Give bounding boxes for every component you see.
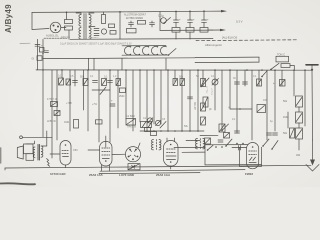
capacitor C10 [73, 80, 78, 82]
wire left feeder a [37, 39, 39, 70]
wire vertical v110 [109, 70, 111, 142]
wire vertical v147 [146, 70, 148, 131]
resistor R6 [40, 48, 45, 53]
speaker magnet [24, 144, 34, 154]
resistor R27 [224, 133, 230, 139]
wire mains drop left [32, 12, 49, 29]
wire vertical v245 [244, 70, 246, 86]
wire vertical v118 [117, 70, 119, 128]
capacitor C1 [94, 28, 99, 30]
capacitor C14 [235, 81, 240, 83]
svg-text:A/By49: A/By49 [4, 4, 13, 33]
wire long box bottom [195, 61, 259, 64]
wire vertical v252 [251, 70, 253, 140]
switch S6 [160, 122, 166, 129]
wire vertical v154 [153, 70, 155, 124]
switch S4 [222, 124, 229, 131]
tube V3 [164, 141, 179, 167]
wire secondary top [89, 13, 94, 15]
ladder hatches [296, 98, 302, 138]
resistor R25 [151, 132, 157, 136]
wire psu bottom line [70, 38, 213, 41]
capacitor C16 [110, 103, 115, 105]
wire vertical v175 [174, 70, 176, 82]
resistor R13 [102, 79, 107, 86]
svg-text:+768: +768 [66, 102, 72, 105]
heater V2 [134, 46, 140, 54]
pot arrow 2 [100, 87, 106, 95]
wire plate lead [174, 146, 205, 148]
junction dot [119, 11, 121, 13]
resistor R1 [102, 15, 106, 24]
wire secondary taps [89, 26, 95, 28]
svg-text:Allstromgerät: Allstromgerät [205, 43, 222, 47]
resistor R3 [110, 31, 116, 35]
capacitor C9b [45, 50, 49, 52]
wire r8 link [290, 66, 294, 70]
output cage left [204, 145, 206, 165]
wire ot right [42, 131, 47, 146]
electrolytic C7 [203, 11, 205, 20]
wire vertical v140 [139, 70, 141, 122]
tube V2 [100, 141, 112, 166]
capacitor C20 [218, 139, 223, 141]
resistor R19 [257, 79, 262, 86]
wire v288 [287, 112, 289, 128]
resistor R32 [219, 124, 225, 132]
if transformer L2 [196, 139, 198, 149]
heater junction dots [130, 46, 131, 47]
svg-text:C50: C50 [73, 149, 78, 152]
svg-text:1F730 G1R: 1F730 G1R [50, 172, 66, 176]
tube V1 [60, 141, 71, 166]
resistor R33 [205, 138, 211, 144]
wire vertical v230 [229, 70, 231, 109]
resistor R7 [37, 56, 42, 61]
resistor R20 [280, 80, 286, 87]
resistor R21 [51, 102, 58, 107]
switch S3 [271, 63, 279, 69]
tube V4 [247, 143, 259, 169]
capacitor C13 [188, 96, 193, 98]
scan artifact left edge [0, 148, 2, 163]
dashed chassis line [196, 39, 297, 42]
resistor ladder right r3 [296, 128, 303, 139]
svg-text:220V 2A: 220V 2A [61, 36, 70, 39]
capacitor C11 [93, 80, 98, 82]
tube V3 pins [166, 138, 168, 142]
wire R1 [103, 12, 105, 15]
wire low line3 [99, 173, 200, 174]
power transformer T1 secondary [89, 15, 91, 27]
resistor R4 [138, 21, 146, 25]
svg-text:ZF 468: ZF 468 [206, 86, 208, 94]
wire vertical v190 [189, 70, 191, 131]
svg-text:ENTBRUMMER: ENTBRUMMER [126, 17, 143, 20]
ground chevron [306, 165, 319, 172]
wire vertical v75 [74, 70, 76, 86]
wire vertical v99 [98, 70, 100, 142]
trimmer T2 [155, 120, 160, 125]
switch S8 [263, 139, 269, 146]
output cage bottom [205, 164, 262, 166]
tube V1 pins [65, 165, 67, 168]
resistor hum zigzag [47, 159, 50, 167]
tone box [276, 56, 289, 62]
wire left feeder b [42, 39, 44, 70]
wire vertical v62 [61, 70, 63, 78]
wire long box top [195, 56, 259, 59]
pot arrow [201, 78, 209, 87]
svg-text:AW: AW [296, 153, 301, 157]
wire vertical v294 [293, 70, 295, 96]
heater V4 [152, 46, 158, 54]
wire mid rail [43, 57, 195, 60]
wire output arrow [208, 29, 221, 31]
capacitor C12 [108, 80, 113, 82]
wire main bus [36, 69, 312, 71]
resistor R2 [109, 24, 115, 28]
rectifier cell G3 [200, 28, 208, 33]
capacitor C21 [267, 132, 272, 134]
wire ladder [298, 107, 300, 112]
wire vertical v305 [304, 70, 306, 126]
switch S2 [169, 49, 177, 56]
switch S7 [226, 139, 232, 146]
wire vertical v198 [197, 70, 199, 131]
wire plug to fuse [61, 27, 66, 29]
resistor R8 [281, 64, 290, 68]
resistor ladder right r2 [296, 112, 303, 123]
resistor R15 [120, 88, 126, 93]
rectifier cell G1 [172, 28, 180, 33]
wire vertical v267 [266, 70, 268, 140]
output cage top [205, 144, 248, 146]
wire vertical v43 [42, 70, 44, 137]
resistor R24 [145, 128, 151, 132]
resistor R22 [54, 111, 60, 116]
resistor R23 [126, 119, 136, 126]
capacitor C2 [94, 33, 99, 35]
capacitor C22 [238, 146, 240, 151]
scan artifact bottom-left [0, 183, 35, 184]
switch S5 [272, 141, 278, 150]
wire vertical v222 [221, 70, 223, 131]
wire rectifier column [159, 12, 161, 31]
wire cathode line [100, 170, 245, 172]
electrolytic C5 [175, 12, 177, 21]
output transformer core [37, 145, 39, 161]
heater V5 [161, 46, 167, 54]
output transformer winding [41, 146, 43, 157]
ground arrow [312, 140, 314, 162]
resistor R14 [116, 79, 121, 86]
svg-text:C.2g: C.2g [158, 14, 164, 18]
junction row above V3 [146, 130, 199, 132]
box hatch group [51, 79, 294, 170]
svg-text:50 kHz: 50 kHz [211, 88, 213, 96]
heater chain bottom rail [122, 54, 168, 56]
hatch box [141, 122, 152, 128]
svg-text:17767 1L: 17767 1L [47, 98, 58, 101]
junction dots row [236, 143, 238, 145]
capacitor C18 [273, 132, 278, 134]
resistor R5 [127, 29, 137, 33]
trimmer T1 [147, 118, 152, 123]
wire vertical v88 [87, 70, 89, 131]
resistor R17 [180, 79, 185, 86]
heater V3 [143, 46, 149, 54]
wire tube top leads [186, 139, 200, 141]
capacitor C17 [235, 130, 240, 132]
wire speaker top [26, 141, 35, 144]
wire vertical v70 [69, 70, 71, 131]
socket X1 [125, 147, 140, 162]
svg-text:TON.C: TON.C [277, 53, 285, 57]
wire vertical v126 [125, 70, 127, 119]
wire bottom hook [4, 168, 6, 170]
wire bottom long [5, 165, 311, 168]
resistor R30 [201, 103, 206, 111]
svg-text:LF50 W: LF50 W [47, 120, 56, 123]
wire vertical v203 [202, 70, 204, 86]
wire fuse down [68, 30, 70, 39]
rectifier cell G2 [186, 28, 194, 33]
wire y90 [92, 89, 110, 91]
switch S1 [164, 18, 171, 24]
capacitor C4 [151, 21, 153, 23]
resistor R10 [59, 78, 64, 85]
resistor R35 [257, 105, 266, 113]
resistor R16 [173, 79, 178, 86]
wire y135 [200, 134, 218, 136]
capacitor C9 [35, 44, 40, 46]
speaker cone [17, 146, 23, 159]
svg-text:110/220V~: 110/220V~ [88, 37, 100, 39]
terminal circle [20, 136, 23, 139]
wire screen lead [182, 151, 205, 153]
resistor R37 [74, 120, 79, 129]
wire rail link b [93, 59, 95, 70]
wire vertical v182 [181, 70, 183, 131]
svg-text:[AL]-ELKOS: [AL]-ELKOS [222, 36, 237, 40]
wire rail link d [165, 58, 167, 70]
svg-text:LW KW: LW KW [194, 101, 197, 110]
svg-text:AUSGL.EL: AUSGL.EL [46, 34, 59, 38]
svg-text:0,1: 0,1 [104, 76, 108, 79]
wire fuse to bus [66, 12, 68, 19]
wire rectifier output row [160, 29, 213, 31]
pot VR1 [212, 79, 218, 85]
wire vertical v275 [274, 70, 276, 131]
wire vertical v83 [83, 70, 85, 110]
wire long box cap [258, 57, 260, 62]
antenna terminal [306, 64, 318, 66]
resistor R12 [83, 79, 88, 86]
resistor R18 [201, 79, 206, 87]
resistor R26 [203, 97, 208, 107]
wire vertical v133 [132, 70, 134, 131]
switch S10 [262, 71, 267, 77]
tube V2 pins [101, 165, 103, 171]
wire vertical v215 [214, 70, 216, 110]
wire column x120 [119, 12, 121, 39]
wire right edge drop [311, 70, 314, 140]
heater chain top rail [122, 45, 166, 47]
svg-text:FW22: FW22 [245, 172, 253, 176]
wire vertical v57 [56, 70, 58, 140]
wire vertical v161 [160, 70, 162, 124]
voice coil [33, 147, 35, 157]
svg-text:2MΩ: 2MΩ [119, 95, 124, 98]
pilot lamp [101, 29, 106, 34]
switch S9 [208, 145, 214, 150]
resistor R34 [290, 128, 295, 138]
junction dots cage [215, 146, 217, 148]
wire row y131 [140, 130, 204, 132]
resistor R31 [201, 117, 206, 125]
wire vertical v52 [51, 70, 53, 158]
scan artifact faint mark [20, 42, 30, 44]
capacitor C15 [243, 81, 248, 83]
resistor R11 [66, 79, 71, 85]
wire rail link c [121, 59, 123, 70]
resistor ladder right r1 [296, 96, 303, 107]
capacitor C3 [130, 21, 132, 23]
svg-text:TRKO B: TRKO B [127, 126, 136, 129]
svg-text:C1 50.2: C1 50.2 [126, 115, 135, 118]
wire vertical v259 [258, 70, 260, 86]
speaker lower box [26, 154, 34, 161]
wire y109 link [230, 108, 252, 110]
wire rail link a [88, 59, 90, 70]
svg-text:1MΩ: 1MΩ [64, 121, 69, 124]
socket underbox [128, 164, 140, 170]
wire vertical v168 [167, 70, 169, 131]
wire primary top [76, 13, 81, 15]
svg-text:0,3 V: 0,3 V [236, 20, 243, 24]
svg-text:25A6 1GA: 25A6 1GA [156, 173, 171, 177]
junction dots on bus [42, 69, 306, 71]
fuse block F1 [65, 20, 73, 24]
arrowhead top bus [221, 10, 227, 13]
resistor R36 [96, 120, 103, 124]
power transformer T1 primary [79, 15, 81, 27]
svg-text:0,1μF 350Ω 6,3V 25A6GT 25Z: 0,1μF 350Ω 6,3V 25A6GT 25Z6GT 0,1μF 350Ω… [60, 42, 132, 45]
tube V4 box wires [239, 148, 241, 167]
transformer core [83, 14, 85, 40]
wire vertical v282 [281, 70, 283, 86]
mains plug P1 [50, 22, 61, 33]
heater V1 [125, 46, 131, 54]
wire top supply bus [32, 11, 222, 12]
wire terminal [22, 136, 52, 138]
if transformer L1 [152, 140, 154, 150]
wire vertical v237 [236, 70, 238, 133]
wire plug dashes [44, 37, 67, 39]
electrolytic C6 [189, 11, 191, 20]
